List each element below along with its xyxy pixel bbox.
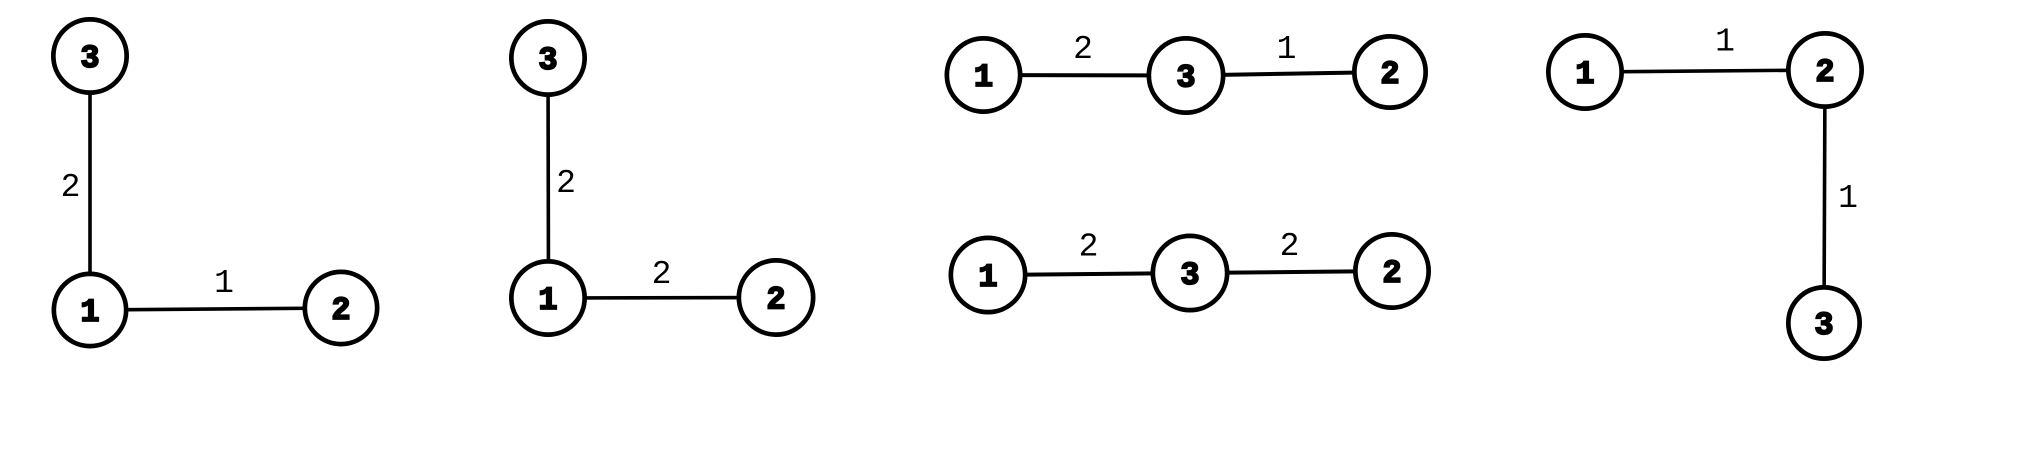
svg-text:3: 3 xyxy=(1814,307,1833,344)
svg-text:2: 2 xyxy=(766,282,785,319)
svg-text:3: 3 xyxy=(1180,257,1199,294)
svg-text:2: 2 xyxy=(652,256,672,293)
svg-text:3: 3 xyxy=(538,42,557,79)
svg-text:3: 3 xyxy=(80,40,99,77)
wire edge 1-2 (graph 2, weight 2) xyxy=(548,296,776,300)
svg-text:2: 2 xyxy=(1073,31,1093,68)
node 1 (graph 4) xyxy=(1548,35,1621,108)
svg-text:1: 1 xyxy=(80,294,99,331)
svg-text:3: 3 xyxy=(1176,60,1195,97)
svg-text:2: 2 xyxy=(1280,228,1300,265)
graph 3 bottom row xyxy=(951,228,1429,312)
graph 4 xyxy=(1548,24,1861,359)
node 3 (graph 3 bottom) xyxy=(1153,236,1227,310)
wire edge 3-2 (graph 3 bottom, weight 2) xyxy=(1190,271,1392,273)
node 3 (graph 4) xyxy=(1788,287,1859,358)
wire edge 1-3 (graph 3 top, weight 2) xyxy=(984,73,1187,78)
node 2 (graph 3 bottom) xyxy=(1355,234,1428,307)
node 2 (graph 1) xyxy=(305,272,377,344)
node 3 (graph 3 top) xyxy=(1149,38,1223,112)
wire edge 2-3 (graph 4, weight 1) xyxy=(1824,70,1825,323)
node 3 (graph 2) xyxy=(511,21,584,94)
wire edge 1-2 (graph 4, weight 1) xyxy=(1585,70,1825,72)
svg-text:1: 1 xyxy=(978,259,997,296)
node 3 (graph 1) xyxy=(53,19,126,92)
svg-text:2: 2 xyxy=(331,292,350,329)
svg-text:1: 1 xyxy=(974,59,993,96)
svg-text:2: 2 xyxy=(1079,229,1099,266)
wire edge 3-2 (graph 3 top, weight 1) xyxy=(1186,72,1390,76)
svg-text:1: 1 xyxy=(1277,31,1297,68)
wire edge 3-1 (graph 1, weight 2) xyxy=(88,56,92,310)
node 1 (graph 1) xyxy=(54,274,126,346)
svg-text:2: 2 xyxy=(61,169,81,206)
node 2 (graph 4) xyxy=(1788,33,1861,106)
graph 2 xyxy=(511,21,813,334)
svg-text:1: 1 xyxy=(538,282,557,319)
node 1 (graph 2) xyxy=(511,261,584,334)
svg-text:1: 1 xyxy=(1715,24,1735,61)
wire edge 3-1 (graph 2, weight 2) xyxy=(546,58,550,298)
graph 3 top row xyxy=(947,31,1426,113)
svg-text:2: 2 xyxy=(1380,56,1399,93)
svg-text:2: 2 xyxy=(1382,255,1401,292)
node 1 (graph 3 top) xyxy=(947,38,1020,111)
svg-text:1: 1 xyxy=(214,265,234,302)
node 1 (graph 3 bottom) xyxy=(951,238,1025,312)
node 2 (graph 3 top) xyxy=(1354,36,1425,107)
wire edge 1-2 (graph 1, weight 1) xyxy=(90,308,341,310)
graph 1 xyxy=(53,19,377,346)
wire edge 1-3 (graph 3 bottom, weight 2) xyxy=(988,273,1190,275)
svg-text:1: 1 xyxy=(1575,56,1594,93)
svg-text:1: 1 xyxy=(1838,180,1858,217)
svg-text:2: 2 xyxy=(1815,54,1834,91)
svg-text:2: 2 xyxy=(556,165,576,202)
node 2 (graph 2) xyxy=(739,260,813,334)
